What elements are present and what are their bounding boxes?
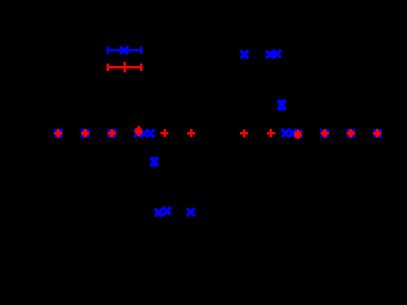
legend: blue series x marker: [120, 46, 128, 54]
data point: blue x marker, bottom single 1: [187, 208, 195, 216]
data point: blue x marker, cluster B 2: [288, 129, 296, 137]
data point: blue x + red plus overlapped, right star 2: [347, 129, 355, 137]
data point: blue x marker, cluster A 2: [140, 129, 148, 137]
data point: red plus marker, middle row single 3: [240, 129, 248, 137]
data point: blue x marker with y-error caps (upper): [277, 101, 286, 110]
data point: red plus marker, middle row single 1: [160, 129, 168, 137]
legend: blue series sample line with error-bar caps: [106, 47, 142, 55]
data point: blue x marker, cluster A 1: [134, 129, 142, 137]
data point: red plus marker, middle row single 2: [187, 129, 195, 137]
data point: blue x marker with y-error caps (lower): [150, 158, 158, 166]
data point: blue x marker, top right single 1: [241, 50, 249, 58]
data point: blue x + red plus overlapped, left star 1: [54, 129, 62, 137]
data point: blue x + red plus overlapped, right star 3: [373, 129, 381, 137]
legend: red series plus marker: [123, 62, 126, 73]
data point: blue x marker, cluster A 3: [146, 129, 154, 137]
data point: blue x marker, cluster B 3: [294, 130, 302, 138]
data point: blue x + red plus overlapped, right star 1: [321, 129, 329, 137]
data point: blue x marker, bottom pair 1: [155, 209, 163, 217]
data point: blue x marker, top right pair 1: [266, 50, 274, 58]
data point: red asterisk marker, cluster A 1: [135, 126, 143, 136]
data point: red plus marker, middle row single 4: [267, 129, 275, 137]
data point: blue x marker, cluster B 1: [281, 129, 289, 137]
data point: blue x marker, top right pair 2: [273, 50, 281, 58]
data point: red asterisk marker, cluster B 1: [294, 129, 302, 139]
data point: blue x + red plus overlapped, left star 2: [81, 129, 89, 137]
data point: blue x marker, bottom pair 2: [163, 207, 171, 215]
overlap fill between top-right pair: [272, 52, 275, 55]
data point: blue x + red plus overlapped, left star 3: [108, 129, 116, 137]
legend: red series sample line with error-bar caps: [106, 63, 142, 71]
